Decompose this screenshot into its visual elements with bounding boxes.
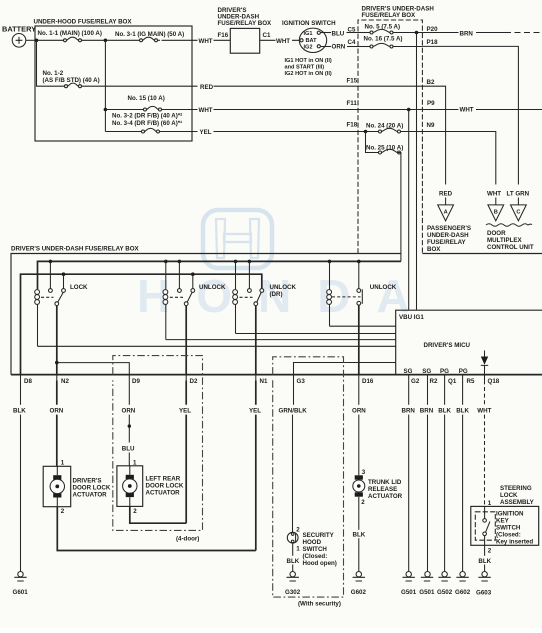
svg-text:No. 16 (7.5 A): No. 16 (7.5 A) [364, 35, 403, 42]
svg-text:D16: D16 [362, 378, 374, 385]
wire P18 to triangle C [422, 46, 518, 205]
wire LOCK coil output to MICU [38, 345, 396, 347]
node UNLOCK2 contact bus1 [178, 260, 182, 264]
wire bus1 to LOCK fixed contact [49, 261, 51, 288]
svg-text:PASSENGER'S: PASSENGER'S [427, 225, 471, 232]
svg-text:P9: P9 [427, 100, 435, 107]
svg-text:C1: C1 [263, 32, 271, 39]
svg-text:DOOR: DOOR [487, 230, 506, 237]
label trunk lid release actuator [368, 479, 403, 500]
wire BRN dashed continuation [505, 32, 542, 34]
torn edge squiggle door multiplex [486, 224, 532, 227]
label steering lock assembly [500, 485, 535, 506]
svg-text:DRIVER'S MICU: DRIVER'S MICU [424, 342, 471, 349]
svg-text:LT GRN: LT GRN [507, 191, 530, 198]
battery B+ [2, 25, 36, 48]
relay box outline [11, 254, 401, 375]
svg-text:IG2: IG2 [304, 45, 313, 51]
svg-text:F18: F18 [347, 122, 358, 129]
pin row line [11, 374, 542, 376]
wire UNLOCK2 coil output to MICU [166, 339, 396, 341]
wire IG1 feed [408, 110, 410, 311]
steering lock assembly box [471, 506, 539, 545]
label driver's under-dash fuse/relay box (right) [362, 6, 435, 20]
svg-text:Q1: Q1 [448, 378, 457, 385]
fuse No.3-1 (IG MAIN) (50 A) [115, 31, 184, 42]
svg-text:UNLOCK: UNLOCK [199, 284, 226, 291]
wire BRN out P20 [422, 32, 505, 34]
note IG1/IG2 hot [285, 58, 332, 77]
svg-text:CONTROL UNIT: CONTROL UNIT [487, 244, 534, 251]
node UNLOCK4 coil bus1 [328, 260, 332, 264]
svg-text:UNLOCK: UNLOCK [370, 284, 397, 291]
wire D8 BLK to G601 [20, 380, 22, 571]
fuse No.15 (10 A) [128, 95, 165, 111]
wire ORN IG2 to C4 [347, 46, 358, 48]
ground G501 b [419, 572, 435, 596]
svg-text:G3: G3 [297, 378, 306, 385]
svg-text:LEFT REAR: LEFT REAR [146, 475, 181, 482]
svg-text:BLU: BLU [332, 30, 345, 37]
fuse No.25 (10 A) [366, 144, 403, 154]
svg-text:ORN: ORN [352, 408, 366, 415]
under-hood fuse/relay box [35, 26, 192, 141]
svg-text:C4: C4 [348, 39, 356, 46]
svg-text:IG2 HOT in ON (II): IG2 HOT in ON (II) [285, 71, 332, 77]
svg-text:G2: G2 [411, 378, 420, 385]
svg-text:D2: D2 [190, 378, 198, 385]
wire bottom edge of multiplex area [422, 253, 542, 255]
svg-text:ASSEMBLY: ASSEMBLY [500, 499, 535, 506]
wire left rear actuator to D2 YEL [130, 506, 186, 523]
relay UNLOCK-DR coil [233, 261, 238, 333]
ground G602 trunk [351, 572, 367, 596]
relay UNLOCK-DR switch [240, 289, 264, 306]
svg-text:ACTUATOR: ACTUATOR [146, 489, 181, 496]
wire fuse25 down to relay bus [397, 153, 401, 262]
svg-text:STEERING: STEERING [500, 485, 532, 492]
svg-text:SG: SG [422, 368, 431, 375]
relay LOCK switch [41, 289, 65, 306]
svg-text:ACTUATOR: ACTUATOR [73, 492, 108, 499]
box 4-door dash-dot [113, 356, 203, 531]
svg-text:N2: N2 [61, 378, 69, 385]
ground G601 [13, 572, 29, 596]
label driver's under-dash fuse/relay box (left) [218, 7, 273, 27]
wire row3 WHT to F11 [105, 109, 358, 111]
node LOCK contact bus2 [62, 272, 66, 276]
wire R5 BLK to G602 [462, 380, 464, 571]
wire G3 GRN/BLK to hood switch [293, 380, 294, 532]
svg-text:PG: PG [459, 368, 468, 375]
bus wire 2 [21, 274, 262, 374]
svg-text:3: 3 [362, 469, 366, 476]
svg-text:BRN: BRN [402, 408, 416, 415]
svg-text:G302: G302 [285, 589, 301, 596]
wire row ORN inside box [358, 46, 371, 48]
wire LOCK output to N2 [56, 306, 58, 375]
svg-text:GRN/BLK: GRN/BLK [279, 408, 308, 415]
svg-text:ORN: ORN [50, 408, 64, 415]
wire branch to D9 [57, 363, 130, 375]
svg-text:No. 3-1 (IG MAIN) (50 A): No. 3-1 (IG MAIN) (50 A) [115, 31, 184, 38]
svg-text:BLK: BLK [353, 532, 366, 539]
svg-text:BAT: BAT [306, 38, 318, 44]
wire G2 BRN to G501 [408, 380, 410, 571]
label driver's door lock actuator [73, 478, 111, 499]
svg-text:P20: P20 [427, 26, 439, 33]
svg-text:BLK: BLK [438, 408, 451, 415]
svg-text:F11: F11 [347, 100, 358, 107]
pin ticks [21, 375, 485, 381]
svg-text:YEL: YEL [200, 129, 212, 136]
connector triangle B [488, 205, 504, 221]
svg-text:BOX: BOX [427, 246, 441, 253]
svg-text:BRN: BRN [420, 408, 434, 415]
svg-text:N9: N9 [427, 122, 435, 129]
svg-text:RED: RED [200, 84, 214, 91]
svg-text:G603: G603 [476, 589, 492, 596]
node junction fuse25 branch [364, 130, 368, 134]
wire G3 output from MICU [294, 363, 396, 375]
wire UNLOCK2 output to D2 [185, 306, 187, 375]
svg-text:DRIVER'S UNDER-DASH FUSE/RELAY: DRIVER'S UNDER-DASH FUSE/RELAY BOX [11, 246, 140, 253]
svg-text:B2: B2 [427, 79, 435, 86]
node N2 branch [55, 361, 59, 365]
node UNLOCK4 contact bus1 [357, 260, 361, 264]
svg-text:No. 1-2: No. 1-2 [43, 70, 64, 77]
svg-text:Q18: Q18 [488, 378, 500, 385]
svg-text:DRIVER'S: DRIVER'S [73, 478, 102, 485]
svg-text:HOOD: HOOD [303, 539, 322, 546]
wire F18 row inside box [358, 131, 379, 133]
ignition switch U-ign [282, 20, 336, 52]
relay UNLOCK2 coil [163, 261, 168, 339]
svg-text:No. 3-4 (DR F/B) (60 A)*¹: No. 3-4 (DR F/B) (60 A)*¹ [112, 120, 182, 127]
svg-text:FUSE/RELAY: FUSE/RELAY [427, 239, 466, 246]
under-dash fuse/relay box (right, dashed) [358, 20, 422, 254]
svg-text:IGNITION: IGNITION [496, 511, 524, 518]
fuse No.3-2/3-4 (DR F/B) [112, 113, 182, 133]
svg-text:WHT: WHT [199, 38, 213, 45]
wire bus1 to UNLOCK-DR fixed contact [248, 261, 250, 288]
svg-text:IG1: IG1 [304, 31, 313, 37]
svg-text:LOCK: LOCK [70, 284, 88, 291]
label door multiplex control unit [487, 230, 534, 251]
node junction VBU vertical [407, 108, 411, 112]
bus wire 1 [38, 261, 401, 289]
svg-text:2: 2 [133, 508, 137, 515]
svg-text:R5: R5 [467, 378, 475, 385]
svg-text:(DR): (DR) [270, 291, 283, 298]
connector triangle A [438, 205, 454, 221]
svg-text:BATTERY: BATTERY [2, 25, 36, 34]
wire D9 ORN/BLU to left rear actuator [128, 380, 130, 465]
node splice D9 [128, 424, 131, 427]
svg-text:G601: G601 [13, 589, 29, 596]
svg-text:F15: F15 [347, 77, 358, 84]
svg-text:No. 3-2 (DR F/B) (40 A)*²: No. 3-2 (DR F/B) (40 A)*² [112, 113, 182, 120]
svg-text:SECURITY: SECURITY [303, 532, 335, 539]
node LOCK contact bus1 [49, 260, 53, 264]
relay UNLOCK2 switch [170, 289, 195, 306]
svg-text:SWITCH: SWITCH [303, 546, 328, 553]
wire battery to under-hood box [26, 39, 37, 41]
svg-text:N1: N1 [260, 378, 268, 385]
svg-text:2: 2 [488, 547, 492, 554]
wire C1 to ignition BAT [260, 39, 300, 41]
svg-text:C: C [516, 210, 520, 216]
svg-text:IG1 HOT in ON (II): IG1 HOT in ON (II) [285, 58, 332, 64]
fuse No.1-2 (AS F/B STD)(40 A) [43, 70, 100, 88]
node junction BRN vertical [415, 31, 419, 35]
node UNLOCK2 coil bus1 [164, 260, 168, 264]
ground G603 [476, 572, 492, 597]
svg-text:IGNITION SWITCH: IGNITION SWITCH [282, 20, 336, 27]
svg-text:G602: G602 [351, 589, 367, 596]
svg-text:SWITCH: SWITCH [496, 525, 521, 532]
svg-text:F16: F16 [218, 32, 229, 39]
svg-text:No. 24 (20 A): No. 24 (20 A) [366, 122, 403, 129]
svg-text:No. 1-1 (MAIN) (100 A): No. 1-1 (MAIN) (100 A) [38, 30, 102, 37]
wire row BLU inside box [358, 32, 371, 34]
fuse No.1-1 (MAIN) (100 A) [38, 30, 102, 42]
svg-text:VBU IG1: VBU IG1 [399, 314, 424, 321]
fuse No.5 (7.5 A) [365, 23, 423, 34]
node junction at 105 [104, 39, 108, 43]
ground G501 a [401, 572, 417, 596]
fuse No.24 (20 A) [366, 122, 422, 133]
node UNLOCK2 contact bus2 [191, 272, 195, 276]
svg-text:B: B [494, 210, 498, 216]
svg-text:MULTIPLEX: MULTIPLEX [487, 237, 522, 244]
svg-text:DOOR LOCK: DOOR LOCK [146, 482, 184, 489]
svg-text:G602: G602 [455, 589, 471, 596]
label UNLOCK (DR) [270, 284, 297, 298]
svg-text:BLK: BLK [13, 408, 26, 415]
svg-text:DOOR LOCK: DOOR LOCK [73, 485, 111, 492]
trunk lid release actuator M-trunk [353, 475, 365, 496]
svg-text:(AS F/B STD) (40 A): (AS F/B STD) (40 A) [43, 77, 100, 84]
svg-text:ORN: ORN [122, 408, 136, 415]
wire driver's actuator to N1 YEL [57, 507, 256, 551]
svg-text:(Closed:: (Closed: [496, 532, 521, 539]
wire row2 RED to F15 [82, 85, 359, 87]
svg-text:LOCK: LOCK [500, 492, 518, 499]
svg-text:G501: G501 [401, 589, 417, 596]
svg-text:BLK: BLK [478, 558, 491, 565]
wire UNLOCK4 output to D16 [358, 305, 360, 374]
label left rear door lock actuator [146, 475, 184, 496]
svg-text:D8: D8 [24, 378, 32, 385]
svg-text:A: A [444, 210, 448, 216]
wire branch to fuse No.25 [366, 132, 380, 153]
svg-text:FUSE/RELAY BOX: FUSE/RELAY BOX [218, 20, 273, 27]
relay LOCK coil [35, 290, 40, 347]
svg-text:(Closed:: (Closed: [303, 553, 328, 560]
svg-text:WHT: WHT [199, 107, 213, 114]
security hood switch S-hood [287, 532, 298, 543]
wire VBU feed (BAT) [416, 33, 418, 311]
wire R2 BRN to G501 [427, 380, 429, 571]
label passenger's under-dash fuse/relay box [427, 225, 471, 253]
svg-text:ACTUATOR: ACTUATOR [368, 493, 403, 500]
wire steering BLK to G603 [484, 545, 486, 571]
ground G502 [437, 572, 453, 596]
svg-text:HONDA: HONDA [137, 270, 436, 322]
wire bus1 to UNLOCK2 fixed contact [178, 261, 180, 288]
svg-text:TRUNK LID: TRUNK LID [368, 479, 402, 486]
svg-text:UNLOCK: UNLOCK [270, 284, 297, 291]
svg-text:C5: C5 [348, 27, 356, 34]
connector triangle C [511, 205, 527, 221]
wire row4 YEL to F18 [105, 131, 358, 133]
fuse No.16 (7.5 A) [364, 35, 423, 48]
connector box F16-C1 [230, 28, 259, 53]
ground G302 [285, 572, 301, 596]
driver's door lock actuator M-drv [43, 466, 70, 506]
svg-text:2: 2 [361, 499, 365, 506]
wire P9 WHT out to right edge [358, 109, 542, 111]
wire bus2 to LOCK fixed contact [63, 274, 65, 288]
svg-text:WHT: WHT [487, 191, 501, 198]
svg-text:R2: R2 [430, 378, 438, 385]
wire trunk actuator BLK to G602 [358, 497, 360, 572]
wire UNLOCK-DR coil output to MICU [236, 333, 396, 335]
MICU box VBU IG1 [396, 310, 542, 374]
wire UNLOCK-DR output to N1 [255, 306, 257, 375]
watermark Honda logo [203, 210, 272, 268]
box with-security dash-dot [273, 357, 344, 597]
svg-text:Hood open): Hood open) [303, 560, 337, 567]
svg-text:G501: G501 [419, 589, 435, 596]
node UNLOCK-DR coil bus1 [234, 260, 238, 264]
wire UNLOCK4 coil output to MICU [330, 325, 396, 327]
svg-text:(With security): (With security) [298, 600, 341, 607]
label ignition key switch [496, 511, 533, 546]
svg-text:1: 1 [61, 459, 65, 466]
wire branch down at 105 [104, 40, 106, 131]
svg-text:SG: SG [404, 368, 413, 375]
wire N2 ORN to driver's actuator [56, 380, 58, 466]
ground G602 b [455, 572, 471, 596]
wire BLU IG1 to C5 [347, 32, 359, 34]
wire row1 WHT main feed [37, 39, 231, 41]
svg-text:YEL: YEL [179, 408, 191, 415]
svg-text:D9: D9 [132, 378, 140, 385]
wire Q18 WHT to steering lock [484, 380, 486, 506]
relay UNLOCK4 switch [332, 289, 362, 306]
svg-text:WHT: WHT [276, 38, 290, 45]
svg-text:RED: RED [439, 191, 453, 198]
svg-text:No. 15 (10 A): No. 15 (10 A) [128, 95, 165, 102]
wire bus2 to UNLOCK2 fixed contact [192, 274, 194, 288]
svg-text:(4-door): (4-door) [176, 536, 199, 543]
svg-text:ORN: ORN [332, 44, 346, 51]
svg-text:2: 2 [61, 508, 65, 515]
svg-text:P18: P18 [427, 39, 439, 46]
svg-text:WHT: WHT [460, 107, 474, 114]
node junction row3 [104, 108, 108, 112]
svg-text:RELEASE: RELEASE [368, 486, 397, 493]
wire D16 ORN to trunk actuator [358, 380, 360, 475]
svg-text:BRN: BRN [460, 30, 474, 37]
svg-text:and START (III): and START (III) [285, 64, 325, 70]
wire N1 YEL drop [255, 380, 257, 550]
svg-text:UNDER-DASH: UNDER-DASH [427, 232, 469, 239]
svg-text:FUSE/RELAY BOX: FUSE/RELAY BOX [362, 12, 417, 19]
diode Q18 internal [481, 351, 488, 375]
svg-text:BLK: BLK [287, 558, 300, 565]
svg-text:2: 2 [296, 527, 300, 534]
label security hood switch [303, 532, 337, 567]
wire B2 to triangle A [358, 86, 446, 205]
wire Q1 BLK to G502 [444, 380, 446, 571]
svg-text:PG: PG [440, 368, 449, 375]
svg-text:BLU: BLU [122, 446, 135, 453]
svg-text:BLK: BLK [456, 408, 469, 415]
node UNLOCK-DR contact bus1 [248, 260, 252, 264]
svg-text:1: 1 [296, 545, 300, 552]
wire N9 to triangle B [422, 132, 495, 205]
svg-text:G502: G502 [437, 589, 453, 596]
left rear door lock actuator M-lr [117, 466, 143, 507]
svg-text:YEL: YEL [249, 408, 261, 415]
relay UNLOCK4 coil [327, 261, 332, 326]
svg-text:Key inserted: Key inserted [496, 539, 533, 546]
wire branch to fuse 1-2 [37, 40, 65, 86]
wire hood switch BLK to G302 [292, 543, 294, 571]
svg-text:WHT: WHT [477, 408, 491, 415]
svg-text:KEY: KEY [496, 518, 510, 525]
node battery junction [35, 39, 39, 43]
wire bus1 to UNLOCK4 contact [358, 261, 360, 288]
svg-text:UNDER-HOOD FUSE/RELAY BOX: UNDER-HOOD FUSE/RELAY BOX [34, 19, 133, 26]
ignition key switch S-key [475, 506, 495, 545]
wire D2 YEL drop [185, 380, 187, 523]
